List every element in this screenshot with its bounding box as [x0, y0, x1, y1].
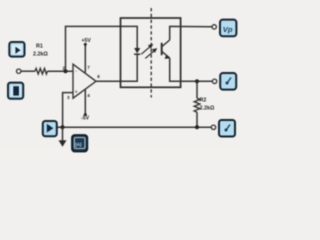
node C junction dot [60, 125, 64, 129]
value 2.2k of R1 [33, 52, 48, 58]
pin 3 label [67, 95, 70, 100]
wire pin3 to ground rail [63, 93, 73, 128]
pin 4 label [87, 93, 90, 98]
connector box GND [72, 135, 87, 152]
svg-text:3: 3 [67, 95, 70, 100]
resistor R1 [35, 68, 47, 74]
node A junction dot [63, 69, 67, 73]
probe box P5 (bottom left) [43, 121, 57, 136]
wire R2 to ground rail [196, 112, 198, 127]
wire op-amp output to LED cathode [96, 55, 137, 82]
probe box P1 (function generator, top-left) [9, 42, 24, 57]
wire pin7 supply [84, 43, 87, 73]
resistor R2 [194, 98, 200, 112]
wire R1 to node A [47, 70, 73, 72]
wire pin4 supply [84, 90, 87, 117]
svg-text:2.2kΩ: 2.2kΩ [200, 106, 215, 112]
svg-text:R2: R2 [200, 98, 207, 104]
svg-text:7: 7 [87, 65, 90, 70]
wire node B down to R2 [196, 81, 198, 98]
svg-text:2.2kΩ: 2.2kΩ [33, 52, 48, 58]
terminal Vp circle [212, 25, 216, 29]
ground [59, 127, 67, 147]
LED D1 of optocoupler [134, 48, 140, 54]
probe box P2 (left, lower) [8, 83, 23, 99]
svg-text:6: 6 [97, 74, 100, 79]
terminal bottom-right circle [211, 125, 215, 129]
probe box P4 (bottom right) [219, 120, 235, 137]
svg-text:4: 4 [87, 93, 90, 98]
label R2 [200, 98, 207, 104]
pin 7 label [87, 65, 90, 70]
value 2.2k of R2 [200, 106, 215, 112]
node D junction dot [195, 125, 199, 129]
op-amp U1 [73, 64, 96, 98]
pin 6 label [97, 74, 100, 79]
label R1 [36, 44, 43, 50]
label +5V [82, 38, 92, 44]
node B junction dot [195, 79, 199, 83]
svg-text:Vp: Vp [223, 25, 233, 34]
wire input to R1 [21, 70, 35, 72]
svg-text:(A): (A) [75, 142, 82, 147]
connector box Vp [220, 20, 236, 37]
wire node A up [66, 26, 138, 71]
pin 2 label [63, 65, 66, 70]
optocoupler dashed divider [150, 8, 152, 98]
light arrows [141, 44, 157, 59]
svg-text:+: + [75, 90, 78, 96]
svg-text:-5V: -5V [81, 115, 90, 121]
label -5V [81, 115, 90, 121]
terminal middle-right circle [212, 79, 216, 83]
terminal input circle [17, 69, 21, 73]
ground rail wire [57, 126, 212, 128]
optocoupler U2 package box [121, 18, 181, 87]
wire emitter to node B [170, 58, 213, 81]
svg-text:+5V: +5V [82, 38, 92, 44]
svg-text:R1: R1 [36, 44, 43, 50]
svg-text:2: 2 [63, 65, 66, 70]
wire collector to Vp terminal [170, 26, 212, 40]
probe box P3 (middle right) [220, 73, 236, 90]
phototransistor Q1 of optocoupler [162, 40, 170, 59]
